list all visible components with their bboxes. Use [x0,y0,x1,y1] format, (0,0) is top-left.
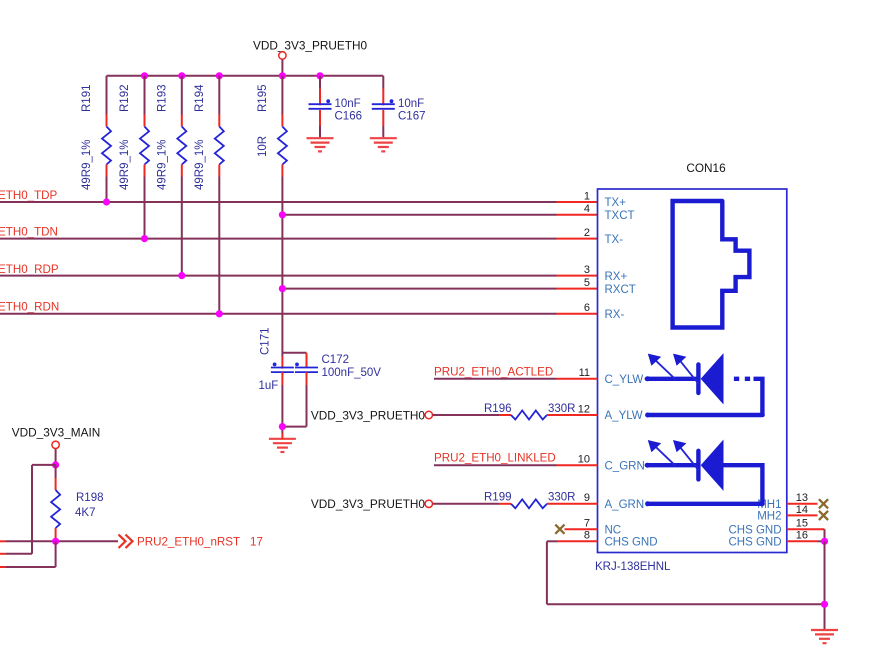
junction ETH0_RDN / R194 [216,310,223,317]
wire PRU2_ETH0_nRST row [0,540,118,542]
svg-text:C167: C167 [398,110,426,122]
junction on rail at R194 [216,72,223,79]
svg-text:12: 12 [578,403,590,415]
svg-text:9: 9 [584,492,590,504]
net label ETH0_RDN [0,300,59,313]
svg-text:49R9_1%: 49R9_1% [156,139,168,190]
net label ETH0_TDP [0,189,58,202]
svg-text:C_YLW: C_YLW [605,374,644,386]
svg-text:MH2: MH2 [757,511,781,523]
node VDD_3V3_PRUETH0 rail (top) [107,75,384,77]
svg-text:TX+: TX+ [605,197,627,209]
svg-text:49R9_1%: 49R9_1% [81,139,93,190]
svg-text:KRJ-138EHNL: KRJ-138EHNL [595,561,671,573]
junction C171/C172 bottom [279,423,286,430]
svg-text:VDD_3V3_PRUETH0: VDD_3V3_PRUETH0 [311,497,426,511]
junction RXCT / center column [279,285,286,292]
resistor R196 330R [433,403,598,420]
wire RXCT row [282,288,597,290]
wire pin 14 stub [787,514,818,516]
svg-text:RXCT: RXCT [605,284,636,296]
svg-text:4K7: 4K7 [75,507,95,519]
svg-text:16: 16 [796,530,808,542]
junction on rail at R192 [141,72,148,79]
wire left branch [0,465,56,554]
svg-text:NC: NC [605,524,622,536]
power VDD_3V3_PRUETH0 (top) [253,39,368,76]
junction VDD_3V3_MAIN / R198 [52,461,59,468]
svg-text:PRU2_ETH0_nRST: PRU2_ETH0_nRST [137,536,240,549]
RJ45 jack symbol [673,201,750,328]
svg-text:10: 10 [578,454,590,466]
junction on rail at R193 [178,72,185,79]
pin names (right side) [728,499,781,549]
wire pin 13 stub [787,503,818,505]
capacitor C172 100nF_50V [295,354,381,385]
svg-text:330R: 330R [548,492,576,504]
svg-text:R195: R195 [257,85,269,113]
svg-text:PRU2_ETH0_ACTLED: PRU2_ETH0_ACTLED [434,365,553,378]
ground under C167 [370,138,397,151]
svg-text:C166: C166 [335,110,363,122]
svg-text:CON16: CON16 [686,161,726,175]
svg-text:3: 3 [584,264,590,276]
svg-text:17: 17 [250,536,263,549]
pin names (left side) [605,197,658,548]
svg-text:330R: 330R [548,403,576,415]
resistor R198 4K7 [51,465,103,541]
power VDD_3V3_PRUETH0 (R199) [311,497,433,511]
svg-text:1uF: 1uF [259,380,279,392]
junction nRST / R198 [52,538,59,545]
svg-text:RX-: RX- [605,309,625,321]
junction ETH0_RDP / R193 [178,272,185,279]
svg-text:6: 6 [584,302,590,314]
svg-text:R199: R199 [484,492,512,504]
svg-text:RX+: RX+ [605,271,628,283]
svg-text:11: 11 [579,367,590,379]
resistor R194 49R9_1% [194,76,224,314]
svg-text:ETH0_RDN: ETH0_RDN [0,300,59,313]
wire ETH0_RDN row [0,313,598,315]
svg-text:7: 7 [584,518,590,530]
wire C172 bottom return [282,385,306,427]
no-connect X pin 13 [819,499,828,508]
net label PRU2_ETH0_ACTLED [434,365,553,378]
svg-text:10nF: 10nF [335,98,361,110]
svg-text:ETH0_RDP: ETH0_RDP [0,263,59,276]
svg-text:C_GRN: C_GRN [605,460,645,472]
capacitor C166 10nF [309,76,363,138]
no-connect X pin 7 [555,525,564,534]
pin numbers (right side) [796,492,808,542]
svg-text:14: 14 [796,504,808,516]
svg-text:R193: R193 [156,85,168,113]
svg-text:ETH0_TDP: ETH0_TDP [0,189,58,202]
wire LINKLED to pin 10 [434,464,598,466]
wire ETH0_TDP row [0,201,598,203]
svg-text:4: 4 [584,203,590,215]
resistor R199 330R [433,492,598,509]
net label PRU2_ETH0_LINKLED [434,452,556,465]
svg-text:TX-: TX- [605,234,624,246]
svg-text:CHS GND: CHS GND [728,537,781,549]
svg-text:C171: C171 [260,328,272,356]
svg-text:VDD_3V3_PRUETH0: VDD_3V3_PRUETH0 [253,39,368,53]
LED yellow (C_YLW/A_YLW) [645,353,763,417]
svg-text:R196: R196 [484,403,512,415]
wire ETH0_TDN row [0,238,598,240]
svg-text:49R9_1%: 49R9_1% [119,139,131,190]
connector CON16 body [598,161,787,553]
power VDD_3V3_PRUETH0 (R196) [311,408,433,422]
wire center column (C171 to gnd junction) [281,385,283,433]
junction ETH0_TDP / R191 [103,198,110,205]
svg-text:100nF_50V: 100nF_50V [322,367,382,379]
ground under C166 [307,138,334,151]
wire TXCT row [282,214,597,216]
wire bottom-left branch [0,541,56,567]
off-page port PRU2_ETH0_nRST [119,535,263,549]
svg-text:A_GRN: A_GRN [605,499,645,511]
svg-text:VDD_3V3_PRUETH0: VDD_3V3_PRUETH0 [311,408,426,422]
ground (bottom right) [811,630,838,643]
wire ETH0_RDP row [0,275,598,277]
resistor R191 49R9_1% [81,76,111,202]
resistor R193 49R9_1% [156,76,186,276]
svg-text:1: 1 [584,190,590,202]
connector value KRJ-138EHNL [595,561,671,573]
svg-text:49R9_1%: 49R9_1% [194,139,206,190]
svg-text:R191: R191 [81,85,93,113]
LED green (C_GRN/A_GRN) [645,440,763,507]
junction ground column / pin8 loop [821,601,828,608]
net label ETH0_TDN [0,226,58,239]
svg-text:A_YLW: A_YLW [605,410,643,422]
junction TXCT / center column [279,211,286,218]
wire center column (R195 to C171) [281,177,283,369]
wire pin 15 to ground column [787,529,825,541]
svg-text:5: 5 [584,277,590,289]
svg-text:PRU2_ETH0_LINKLED: PRU2_ETH0_LINKLED [434,452,556,465]
pin numbers (left side) [578,190,590,541]
junction on rail at C166 [316,72,323,79]
wire pin 8 CHS GND loop [547,541,825,604]
junction pin16/pin15 [821,538,828,545]
power VDD_3V3_MAIN [12,426,101,465]
svg-text:2: 2 [584,227,590,239]
svg-text:10R: 10R [257,136,269,157]
wire C172 branch [282,353,306,368]
svg-text:R198: R198 [76,492,104,504]
svg-text:VDD_3V3_MAIN: VDD_3V3_MAIN [12,426,101,440]
net label ETH0_RDP [0,263,59,276]
svg-text:R192: R192 [119,85,131,113]
junction on rail at R195/VDD [279,72,286,79]
svg-text:TXCT: TXCT [605,210,635,222]
no-connect X pin 14 [819,511,828,520]
wire ACTLED to pin 11 [434,378,598,380]
svg-text:15: 15 [796,518,808,530]
svg-text:10nF: 10nF [398,98,424,110]
svg-text:13: 13 [796,492,808,504]
wire pin 7 stub [565,528,598,530]
svg-text:ETH0_TDN: ETH0_TDN [0,226,58,239]
svg-text:R194: R194 [194,84,206,112]
svg-text:8: 8 [584,530,590,542]
svg-text:CHS GND: CHS GND [728,524,781,536]
capacitor C171 1uF [259,328,294,392]
capacitor C167 10nF [372,76,426,138]
svg-text:CHS GND: CHS GND [605,537,658,549]
wire ground column (right) [824,541,826,629]
resistor R192 49R9_1% [119,76,149,239]
svg-text:C172: C172 [322,354,350,366]
junction ETH0_TDN / R192 [141,235,148,242]
resistor R195 10R [257,76,287,177]
ground under C171 [269,433,296,452]
wire pin 16 to ground column [787,540,825,542]
